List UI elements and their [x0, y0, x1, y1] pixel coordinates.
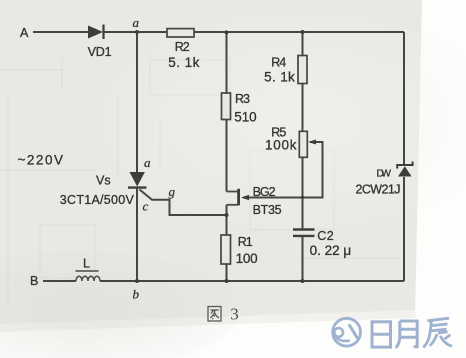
svg-text:3CT1A/500V: 3CT1A/500V — [60, 193, 135, 207]
wire R4 branch top — [302, 32, 304, 56]
diode VD1 — [88, 25, 104, 40]
wire R3 branch top — [226, 32, 228, 93]
junction R4 top — [301, 30, 305, 34]
svg-text:g: g — [169, 184, 176, 199]
svg-text:0. 22 μ: 0. 22 μ — [310, 243, 352, 258]
wire bottom: B to inductor — [43, 280, 76, 282]
wire: R2 right to top-right corner — [194, 31, 404, 33]
svg-text:b: b — [133, 287, 140, 302]
svg-text:R1: R1 — [238, 235, 253, 249]
zener diode DW — [397, 162, 412, 177]
wire R3 to UJT base2 — [226, 120, 228, 192]
capacitor C2 — [293, 230, 315, 236]
resistor R1 — [221, 235, 231, 264]
watermark character 辰 — [423, 318, 452, 347]
svg-text:~220V: ~220V — [18, 152, 64, 167]
svg-text:c: c — [143, 199, 149, 214]
junction node a — [135, 30, 139, 34]
resistor R3 — [222, 93, 231, 120]
wire R5 to C2 — [302, 157, 304, 228]
junction R3 top — [225, 30, 229, 34]
wire C2 to bottom — [302, 237, 304, 281]
svg-text:100: 100 — [236, 251, 258, 266]
resistor R2 — [167, 29, 194, 37]
svg-text:a: a — [144, 155, 151, 170]
inductor L — [76, 271, 101, 281]
svg-text:5. 1k: 5. 1k — [264, 70, 295, 85]
ghost artifacts — [0, 58, 400, 305]
svg-text:a: a — [133, 15, 140, 30]
resistor R4 — [298, 56, 307, 84]
caption 图3 (figure 3) — [208, 307, 221, 322]
junction C2 bottom — [301, 279, 305, 283]
wire R4 to R5 — [302, 84, 304, 132]
svg-text:R2: R2 — [175, 40, 190, 54]
svg-text:DW: DW — [377, 167, 392, 179]
svg-text:100k: 100k — [265, 137, 297, 152]
svg-text:510: 510 — [234, 110, 256, 125]
thyristor Vs (SCR) — [128, 172, 147, 188]
svg-text:A: A — [20, 26, 29, 40]
wire UJT emitter to R5 wiper — [243, 142, 323, 198]
svg-text:L: L — [83, 257, 90, 271]
wire bottom: inductor to corner — [100, 280, 404, 282]
svg-text:R4: R4 — [271, 55, 286, 69]
junction node b — [135, 279, 139, 283]
watermark character 日 — [372, 322, 391, 347]
svg-text:3: 3 — [230, 305, 239, 324]
wire: diode to R2 — [104, 31, 167, 33]
wire right side down to zener — [403, 32, 405, 165]
transistor BG2 (UJT) — [227, 189, 250, 206]
junction R1 bottom — [225, 279, 229, 283]
svg-text:5. 1k: 5. 1k — [168, 55, 199, 70]
wire UJT base1 to R1 — [226, 205, 228, 235]
svg-text:Vs: Vs — [96, 173, 111, 187]
svg-text:B: B — [30, 274, 38, 288]
wire zener to bottom right corner — [403, 177, 405, 281]
wire node a down to SCR anode — [136, 32, 138, 172]
svg-text:C2: C2 — [317, 229, 333, 243]
svg-text:BT35: BT35 — [253, 203, 282, 217]
svg-text:R3: R3 — [235, 92, 250, 106]
potentiometer R5 — [299, 131, 316, 157]
wire R1 to bottom — [226, 264, 228, 281]
wire SCR gate to junction — [140, 190, 227, 216]
svg-text:BG2: BG2 — [253, 185, 276, 199]
wire top: A to diode — [33, 31, 88, 33]
junction gate — [225, 213, 229, 217]
watermark logo circle — [333, 318, 361, 346]
wire SCR cathode down to node b — [136, 189, 138, 282]
watermark character 月 — [396, 321, 417, 348]
junction emitter/C2 — [301, 196, 304, 199]
svg-text:VD1: VD1 — [88, 45, 112, 59]
svg-text:2CW21J: 2CW21J — [356, 183, 401, 197]
